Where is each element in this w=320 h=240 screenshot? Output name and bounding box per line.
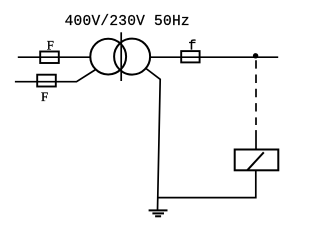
svg-text:F: F xyxy=(47,38,54,52)
svg-text:f: f xyxy=(188,39,196,54)
svg-text:400V/230V 50Hz: 400V/230V 50Hz xyxy=(65,14,190,30)
svg-text:F: F xyxy=(41,90,48,104)
